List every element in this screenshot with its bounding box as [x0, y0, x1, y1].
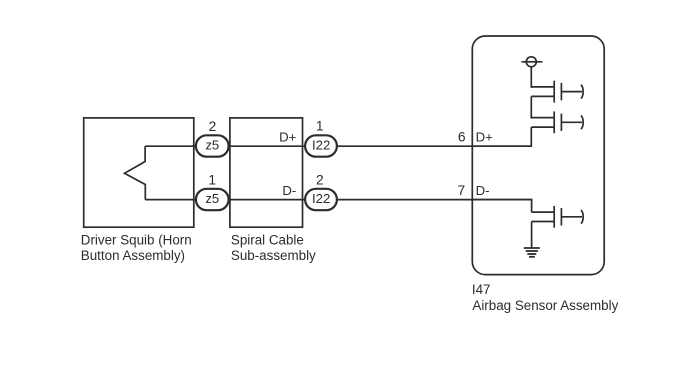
power source terminal symbol (circle with bar) [526, 57, 536, 67]
connector I22 pin 2 (stadium) [305, 189, 337, 210]
ground symbol [524, 248, 540, 257]
connector z5 pin 2 (stadium) [196, 135, 229, 156]
svg-text:D-: D- [476, 183, 490, 198]
transistor Q3 (low-side driver) [532, 206, 584, 228]
svg-text:Airbag Sensor Assembly: Airbag Sensor Assembly [472, 298, 618, 313]
svg-text:2: 2 [209, 119, 217, 134]
wire: transistor Q2 to D+ pin 6 [472, 127, 531, 146]
svg-text:1: 1 [316, 118, 324, 133]
wire: transistor Q3 to ground [531, 222, 533, 248]
svg-text:1: 1 [208, 172, 216, 187]
squib igniter symbol (driver squib) [125, 146, 146, 199]
wire: transistor Q1 to Q2 [530, 96, 532, 118]
svg-text:Button Assembly): Button Assembly) [81, 248, 185, 263]
svg-text:Sub-assembly: Sub-assembly [231, 248, 316, 263]
svg-text:6: 6 [458, 129, 466, 144]
svg-text:D+: D+ [279, 129, 297, 144]
svg-text:z5: z5 [205, 138, 219, 153]
svg-text:I22: I22 [312, 138, 330, 153]
box: Driver Squib (Horn Button Assembly) [84, 118, 194, 227]
svg-text:I22: I22 [312, 191, 330, 206]
svg-text:D+: D+ [476, 129, 494, 144]
svg-text:Spiral Cable: Spiral Cable [231, 233, 304, 248]
connector z5 pin 1 (stadium) [196, 189, 229, 210]
svg-text:I47: I47 [472, 282, 491, 297]
svg-text:Driver Squib (Horn: Driver Squib (Horn [81, 233, 192, 248]
svg-text:2: 2 [316, 172, 324, 187]
wire: D- net row (squib to airbag ECU) [145, 199, 531, 201]
wire: D- pin 7 to transistor Q3 [472, 200, 531, 213]
svg-text:7: 7 [458, 183, 466, 198]
transistor Q1 (high-side driver) [531, 81, 583, 103]
svg-text:D-: D- [282, 183, 296, 198]
svg-text:z5: z5 [205, 191, 219, 206]
box: Spiral Cable Sub-assembly [230, 118, 303, 227]
connector I22 pin 1 (stadium) [305, 135, 337, 156]
wire: supply to transistor Q1 [530, 67, 532, 88]
wire: D+ net row (squib to airbag ECU) [145, 145, 531, 147]
box: I47 Airbag Sensor Assembly (rounded) [472, 36, 604, 275]
transistor Q2 (series driver) [531, 111, 583, 133]
